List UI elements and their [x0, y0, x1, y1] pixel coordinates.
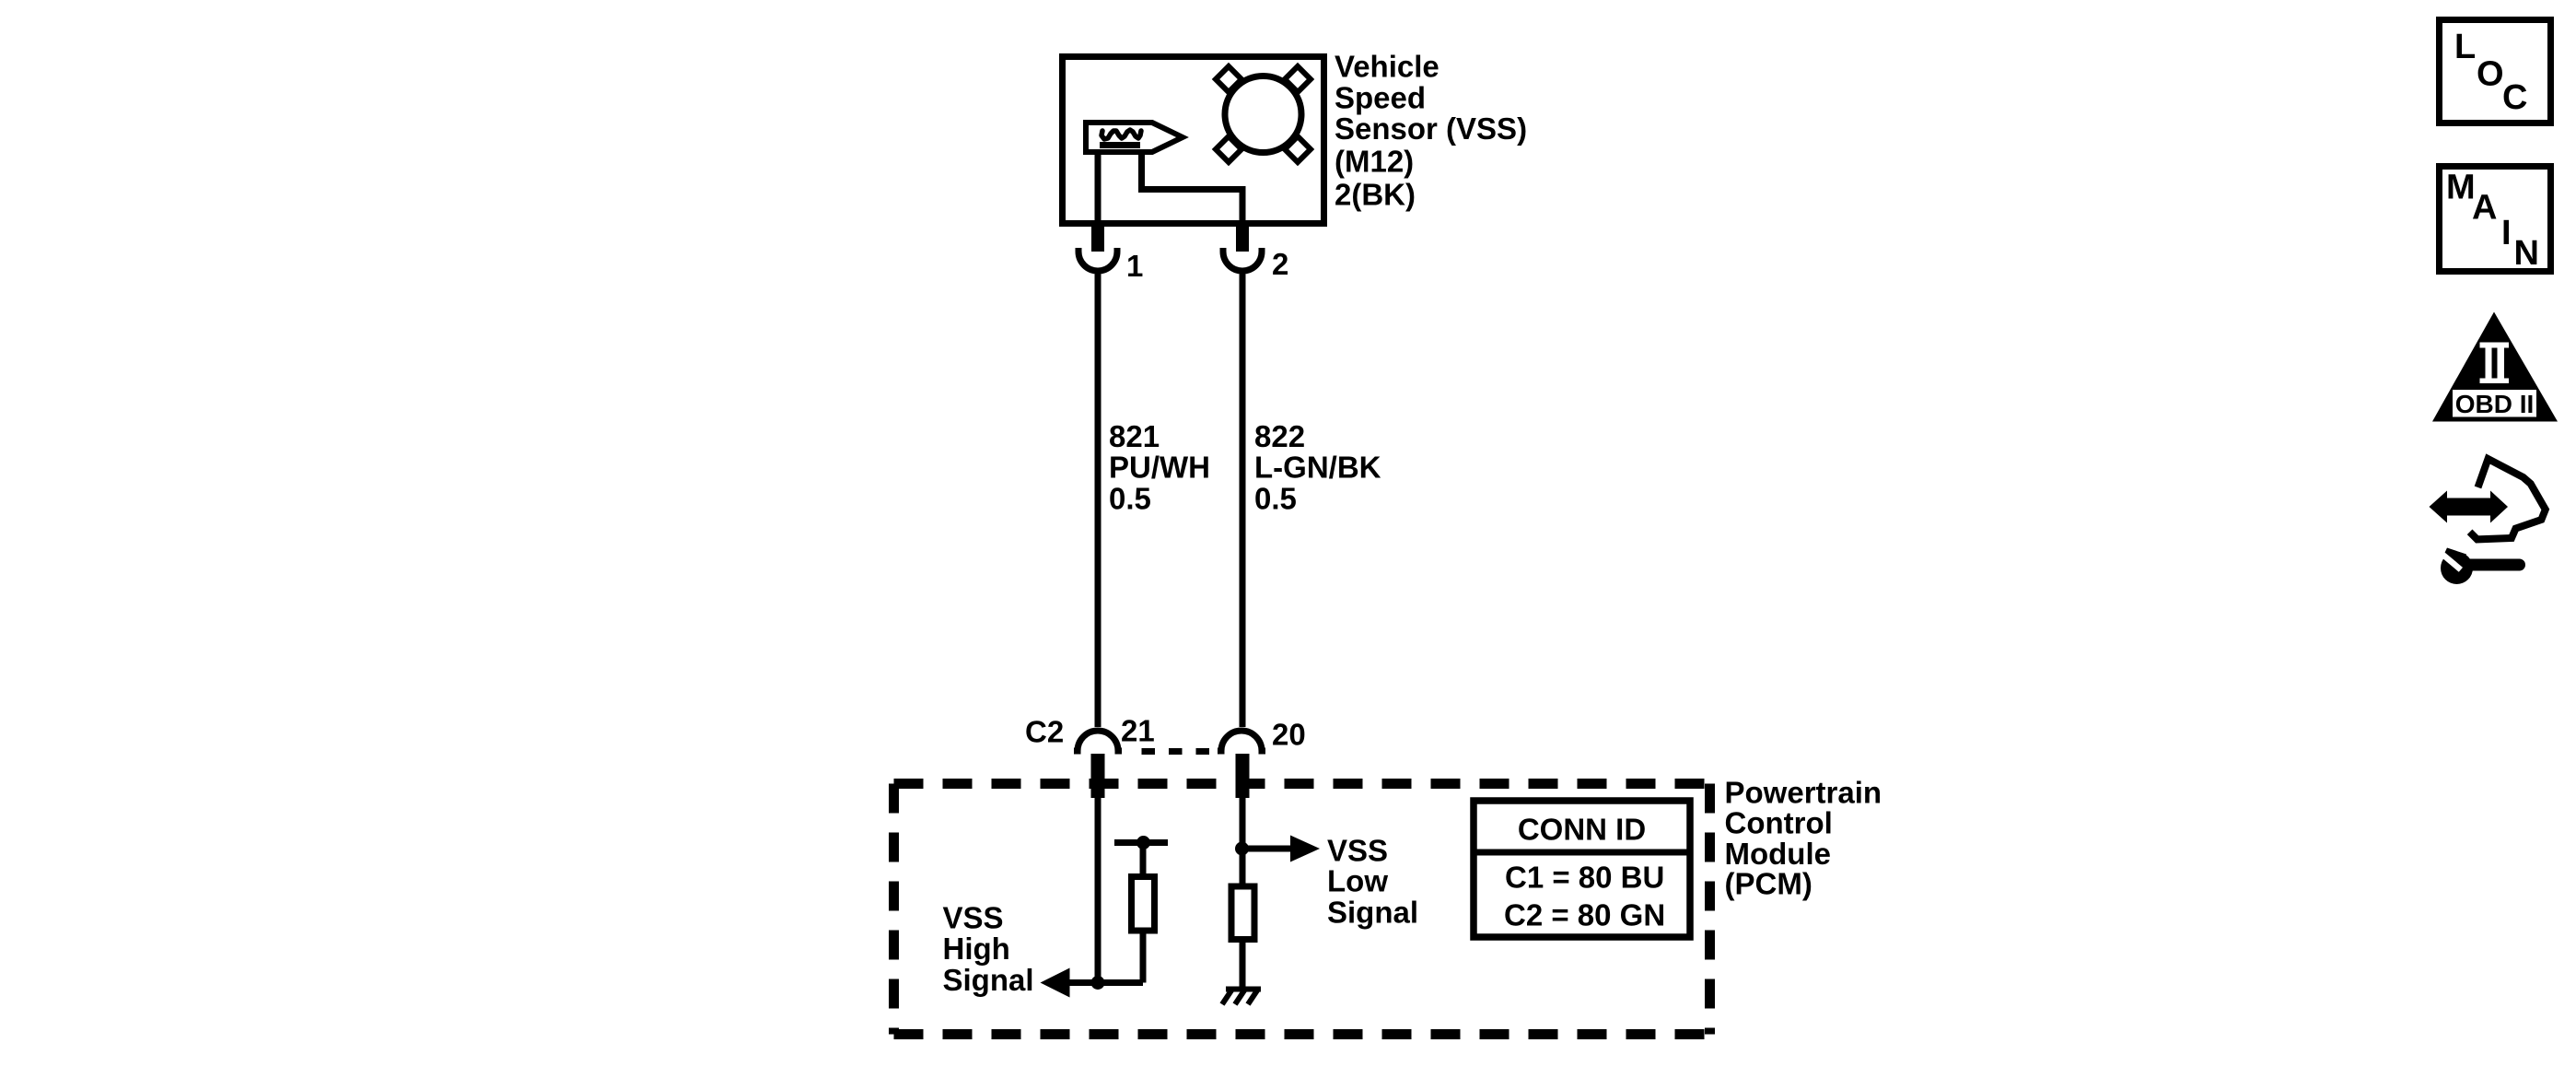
- svg-text:20: 20: [1272, 718, 1306, 752]
- wire label 822 L-GN/BK 0.5: [1254, 419, 1381, 516]
- label Vehicle Speed Sensor (VSS) (M12) 2(BK): [1335, 50, 1527, 212]
- svg-text:L-GN/BK: L-GN/BK: [1254, 451, 1381, 485]
- svg-text:822: 822: [1254, 419, 1305, 453]
- wire label 821 PU/WH 0.5: [1109, 419, 1210, 516]
- PCM connector dome pin 20: [1218, 731, 1265, 751]
- svg-text:(M12): (M12): [1335, 145, 1414, 179]
- wire VSS low horizontal: [1242, 846, 1291, 852]
- sensor pin stub 2: [1236, 224, 1249, 252]
- svg-text:High: High: [943, 932, 1010, 966]
- PCM connector dome pin 21: [1074, 731, 1122, 751]
- vehicle speed sensor box M12: [1063, 57, 1324, 224]
- svg-text:C: C: [2502, 78, 2527, 117]
- resistor R1 branch wire: [1140, 933, 1147, 983]
- sensor pin stub 1: [1091, 224, 1104, 252]
- MAIN icon box: [2440, 167, 2551, 274]
- wire VSS high horizontal: [1067, 979, 1143, 986]
- svg-text:VSS: VSS: [943, 901, 1004, 935]
- diagnostic car wrench icon: [2430, 459, 2546, 584]
- svg-text:0.5: 0.5: [1109, 482, 1151, 516]
- svg-text:0.5: 0.5: [1254, 482, 1297, 516]
- svg-text:CONN ID: CONN ID: [1518, 813, 1646, 847]
- svg-text:M: M: [2446, 169, 2476, 207]
- resistor R2 bottom wire: [1240, 940, 1246, 988]
- LOC icon box: [2440, 20, 2551, 123]
- label VSS High Signal: [943, 901, 1034, 998]
- junction node wire21: [1091, 976, 1105, 990]
- svg-text:(PCM): (PCM): [1725, 867, 1813, 901]
- arrow VSS low signal: [1290, 836, 1320, 862]
- svg-text:O: O: [2477, 55, 2504, 94]
- svg-text:821: 821: [1109, 419, 1160, 453]
- svg-text:Vehicle: Vehicle: [1335, 50, 1440, 84]
- wire sensor internal pin 1: [1095, 155, 1102, 226]
- VSS reluctor wheel symbol: [1216, 66, 1311, 162]
- svg-text:Signal: Signal: [943, 963, 1034, 997]
- label VSS Low Signal: [1327, 834, 1418, 930]
- VSS coil pickup symbol: [1086, 123, 1183, 152]
- label Powertrain Control Module (PCM): [1725, 776, 1882, 901]
- internal stub bar: [1114, 839, 1168, 846]
- svg-text:Sensor (VSS): Sensor (VSS): [1335, 111, 1527, 146]
- svg-text:C2 = 80 GN: C2 = 80 GN: [1504, 898, 1665, 932]
- chassis ground: [1222, 990, 1261, 1005]
- connector socket pin 1: [1078, 248, 1117, 271]
- svg-text:Speed: Speed: [1335, 81, 1426, 115]
- resistor R2: [1231, 886, 1254, 940]
- svg-text:A: A: [2472, 189, 2497, 228]
- resistor R1 top wire: [1140, 847, 1147, 877]
- connector socket pin 2: [1223, 248, 1262, 271]
- svg-text:1: 1: [1126, 249, 1143, 283]
- connector interface dashed line: [1142, 748, 1210, 755]
- wire VSS low inside PCM: [1240, 798, 1246, 886]
- PCM pin stub 21: [1091, 754, 1105, 798]
- wire 822 L-GN/BK: [1240, 275, 1246, 728]
- svg-text:C1 = 80 BU: C1 = 80 BU: [1505, 861, 1664, 895]
- svg-text:OBD II: OBD II: [2455, 390, 2535, 418]
- svg-text:Control: Control: [1725, 806, 1833, 840]
- svg-text:L: L: [2454, 28, 2476, 66]
- svg-text:Signal: Signal: [1327, 896, 1418, 930]
- svg-text:2: 2: [1272, 247, 1288, 281]
- svg-text:PU/WH: PU/WH: [1109, 451, 1210, 485]
- PCM dashed box border: [894, 784, 1710, 1035]
- svg-text:2(BK): 2(BK): [1335, 178, 1416, 212]
- wire VSS high inside PCM: [1095, 798, 1102, 983]
- CONN ID table: [1474, 801, 1690, 937]
- resistor R1: [1132, 877, 1155, 932]
- svg-text:VSS: VSS: [1327, 834, 1388, 868]
- OBD II triangle icon: [2432, 312, 2558, 422]
- PCM pin stub 20: [1236, 754, 1250, 798]
- svg-text:Powertrain: Powertrain: [1725, 776, 1882, 810]
- wire 821 PU/WH: [1095, 275, 1102, 728]
- svg-text:C2: C2: [1025, 715, 1064, 749]
- svg-text:N: N: [2514, 234, 2539, 273]
- junction node wire20: [1235, 842, 1249, 856]
- arrow VSS high signal: [1041, 968, 1070, 998]
- svg-text:21: 21: [1121, 714, 1155, 748]
- svg-text:Module: Module: [1725, 837, 1831, 871]
- junction node R1 top: [1136, 836, 1150, 850]
- wire sensor internal pin 2: [1142, 152, 1243, 226]
- svg-text:Low: Low: [1327, 864, 1388, 898]
- svg-text:I: I: [2501, 214, 2512, 252]
